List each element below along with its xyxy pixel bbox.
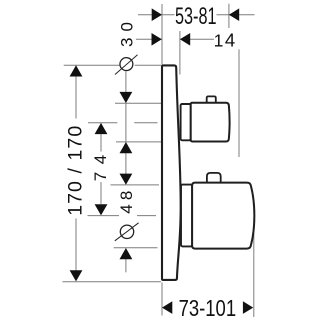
ext line x=162 bottom (73-101 left): [161, 283, 163, 316]
col C dim line (Ø30 / Ø48): [125, 72, 127, 94]
Ø circle top: [120, 58, 133, 71]
top handle body: [191, 103, 230, 142]
arrows 170/170: [70, 65, 83, 76]
ext line x=229 (53-81 right): [228, 4, 230, 28]
ext line y=184.9 (bottom sleeve top): [111, 184, 160, 186]
ext line y=65.3 (plate top): [64, 64, 120, 66]
ext line y=141.9 (top sleeve bottom): [116, 141, 161, 143]
ext line x=253.8 (73-101 right): [253, 222, 255, 317]
ext line y=215.6 (bottom knob axis): [88, 215, 120, 217]
ext line y=247.8 (bottom sleeve bottom): [114, 247, 158, 249]
svg-text:4: 4: [225, 30, 235, 51]
top sleeve: [181, 104, 191, 140]
Ø slash top: [115, 55, 138, 75]
arrows Ø30 (outside): [120, 92, 133, 103]
Ø slash bottom: [115, 223, 139, 241]
plate (escutcheon side view): [162, 65, 181, 280]
top handle tab: [207, 96, 216, 103]
svg-text:53-81: 53-81: [175, 3, 217, 30]
svg-text:1: 1: [214, 31, 224, 51]
svg-text:170 / 170: 170 / 170: [64, 126, 86, 216]
ext line x=180 (14 right): [179, 31, 181, 75]
bottom knob body: [192, 183, 254, 249]
ext line x=162 top (53-81 left / wall face): [161, 4, 163, 64]
arrows 14: [152, 33, 162, 46]
arrows 53-81: [152, 8, 162, 21]
ext line y=122.8 (top handle axis): [88, 122, 117, 124]
col B dim line (74): [100, 134, 102, 152]
bottom sleeve: [181, 185, 192, 247]
dim line 53-81: [138, 14, 175, 16]
Ø circle bottom: [120, 225, 133, 238]
col A dim line (170/170): [75, 75, 77, 119]
svg-text:73-101: 73-101: [179, 295, 237, 320]
bottom knob nub: [207, 173, 221, 184]
mystery vertical line x=239: [238, 49, 240, 157]
arrows 73-101: [162, 301, 172, 314]
arrows Ø48 (outside): [120, 174, 133, 185]
ext line y=103.2 (top sleeve top): [115, 102, 161, 104]
arrows 74: [95, 123, 108, 134]
ext line y=281.7 (plate bottom): [63, 281, 162, 283]
dim line 14: [136, 38, 162, 40]
